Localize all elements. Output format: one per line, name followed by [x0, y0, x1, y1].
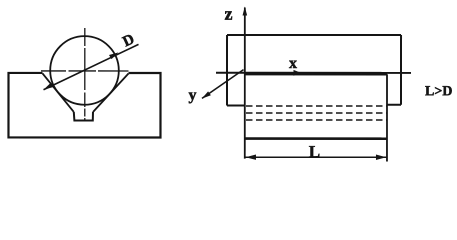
diameter arrowhead upper-right: [109, 52, 119, 59]
cylinder side view: right end face: [400, 35, 402, 105]
cylinder side view: bottom edge visible right of block: [387, 104, 401, 106]
block side view: left edge (merged with z-axis, extended for dimension): [244, 74, 246, 159]
hidden line: slot bottom inside block: [246, 119, 387, 121]
label D (diameter): [122, 34, 135, 47]
relief slot at V bottom: [74, 112, 93, 121]
V-groove right flank: [93, 73, 129, 112]
V-groove left flank: [42, 73, 73, 112]
horizontal centerline of circle: [41, 70, 128, 72]
z-axis line: [244, 8, 246, 75]
label y: [189, 92, 197, 103]
cylinder side view: top edge: [227, 34, 401, 36]
block side view: bottom edge: [245, 137, 387, 140]
block side view: right edge (extended as dimension extension line): [386, 74, 388, 161]
cylinder side view: left end face: [226, 35, 228, 105]
label x: [289, 61, 297, 68]
label z: [225, 11, 232, 19]
dimension line L: [245, 156, 386, 158]
cylinder side view: bottom edge visible left of block: [227, 104, 245, 106]
cylinder circle: [50, 36, 119, 105]
x-axis arrowhead: [294, 70, 302, 76]
label L: [309, 146, 319, 157]
hidden line: cylinder bottom inside groove: [246, 105, 387, 107]
hidden line: slot top inside block: [246, 112, 387, 114]
x-axis line: [216, 72, 411, 74]
block side view: top edge: [245, 73, 387, 75]
y-axis line: [202, 70, 244, 99]
diameter dimension line: [43, 44, 138, 89]
V-block body (front view rectangle with V-groove opening): [8, 73, 160, 138]
y-axis arrowhead: [202, 91, 211, 98]
dimension arrow right: [376, 155, 387, 160]
dimension arrow left: [245, 155, 256, 160]
z-axis arrowhead: [243, 7, 248, 16]
diameter arrowhead lower-left: [43, 83, 53, 90]
note L>D: [425, 86, 452, 95]
vertical centerline of circle: [84, 28, 86, 121]
